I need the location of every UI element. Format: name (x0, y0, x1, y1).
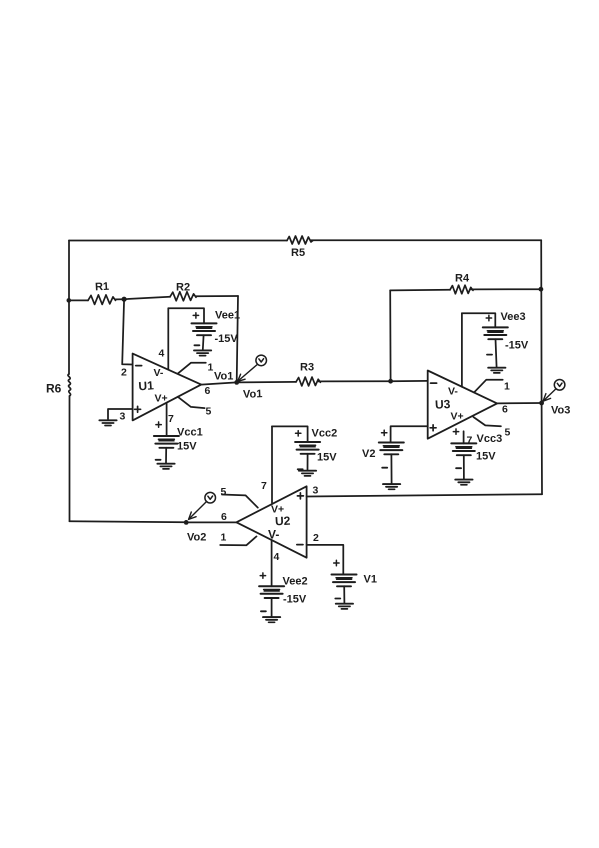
ground at Vee1 (194, 350, 211, 355)
U2 pin 1 lead (220, 536, 256, 545)
U2 pin 3 plus sign (297, 493, 303, 499)
battery Vcc1 (154, 436, 179, 448)
wire Vo1 node to R3 (237, 381, 296, 384)
svg-text:R2: R2 (176, 282, 190, 294)
svg-text:5: 5 (221, 486, 227, 498)
svg-text:R5: R5 (291, 247, 305, 259)
battery Vee3 (483, 327, 508, 339)
svg-text:15V: 15V (317, 452, 337, 464)
wire Vee1 stem (202, 335, 205, 350)
wire V2 stem (390, 454, 392, 483)
wire U1 pin 7 stem to Vcc1 (166, 403, 168, 436)
U2 pin 5 lead (222, 495, 258, 508)
wire R2 right lead to corner (196, 295, 238, 297)
svg-text:4: 4 (159, 348, 165, 360)
wire node into U3 pin minus (391, 380, 428, 382)
wire U3 pin 7 stem to Vcc3 (463, 431, 465, 443)
wire right rail vertical (540, 240, 543, 494)
resistor R6 (68, 374, 71, 396)
resistor R1 (88, 295, 116, 305)
label V1 minus (335, 598, 340, 600)
wire left vertical upper segment (68, 241, 70, 375)
wire node to R2 (124, 297, 170, 299)
node R1-R2 junction dot (122, 297, 127, 302)
wire U3 Vee3 stem up (461, 313, 463, 387)
wire U3 output to Vo3 node (497, 402, 541, 404)
svg-text:V-: V- (448, 386, 458, 398)
svg-text:2: 2 (121, 367, 127, 379)
svg-text:V-: V- (154, 367, 164, 379)
resistor R5 (287, 236, 313, 244)
battery Vee1 (192, 323, 217, 335)
wire R3 to U3 inverting node (318, 380, 391, 382)
op-amp U2 triangle (left pointing) (236, 486, 306, 557)
U3 pin plus sign (430, 425, 436, 431)
wire R1 left lead from left rail (69, 299, 88, 301)
battery Vcc2 (295, 442, 320, 454)
wire U2 pin 4 stem down to Vee2 (271, 540, 273, 586)
battery V2 (379, 443, 404, 455)
svg-text:1: 1 (221, 532, 227, 544)
svg-text:V+: V+ (155, 393, 168, 405)
wire Vcc2 stem (307, 454, 309, 471)
U3 pin minus sign (431, 382, 437, 384)
ground at Vee3 (488, 368, 505, 373)
svg-text:5: 5 (206, 406, 212, 418)
svg-text:U2: U2 (275, 514, 291, 529)
resistor R2 (170, 292, 196, 301)
svg-text:4: 4 (274, 551, 280, 563)
label V1 plus (334, 560, 339, 565)
label V2 plus (382, 430, 387, 435)
ground at Vcc1 (157, 464, 174, 469)
svg-text:V2: V2 (362, 448, 375, 460)
wire node down to U1 pin 2 (122, 299, 132, 364)
svg-text:Vcc2: Vcc2 (312, 428, 338, 440)
battery Vcc3 (451, 443, 476, 455)
svg-text:U3: U3 (435, 397, 451, 412)
resistor R4 (450, 285, 473, 294)
wire Vo2 node to U2 output apex (186, 521, 236, 523)
wire R4 right lead to right rail (471, 288, 541, 290)
probe voltmeter at Vo2 (189, 492, 216, 519)
wire Vcc3 stem (463, 455, 465, 479)
battery V1 (332, 575, 357, 587)
op-amp U3 triangle (428, 371, 497, 439)
label Vcc2 plus (296, 431, 301, 436)
svg-text:6: 6 (502, 404, 508, 416)
wire bottom net right rail to U2 pin 3 (307, 494, 542, 496)
label Vcc2 minus (298, 468, 303, 470)
wire node up to R4 (389, 290, 391, 381)
wire U2 pin 2 to V1 (307, 545, 344, 575)
U3 pin 1 lead (474, 380, 502, 392)
ground at V2 (383, 484, 400, 489)
node left rail R1 junction dot (67, 298, 72, 303)
wire Vee3 stem (496, 339, 497, 367)
svg-text:Vee1: Vee1 (215, 310, 240, 322)
label Vcc1 plus (156, 422, 161, 427)
label Vee3 plus (486, 315, 491, 320)
label Vcc3 plus (453, 429, 458, 434)
U2 pin 2 minus sign (297, 544, 303, 546)
probe voltmeter at Vo1 (238, 355, 267, 381)
svg-text:1: 1 (208, 362, 214, 374)
svg-text:7: 7 (261, 480, 267, 492)
wire Vee1 top link (168, 308, 204, 323)
wire left vertical lower segment (69, 396, 71, 521)
label Vee2 plus (260, 573, 265, 578)
ground at V1 (336, 604, 353, 609)
svg-text:7: 7 (168, 413, 174, 425)
svg-text:Vo2: Vo2 (187, 532, 206, 544)
svg-text:15V: 15V (177, 441, 197, 453)
svg-text:R1: R1 (95, 281, 110, 294)
svg-text:Vo1: Vo1 (243, 388, 263, 401)
label Vee2 minus (261, 610, 266, 612)
svg-text:6: 6 (205, 385, 211, 397)
svg-text:Vee3: Vee3 (501, 311, 526, 323)
ground at Vcc2 (299, 471, 316, 476)
wire Vee2 stem (271, 598, 273, 617)
svg-text:3: 3 (120, 411, 126, 423)
svg-text:15V: 15V (476, 451, 496, 463)
wire Vcc2 top link (272, 426, 308, 442)
wire U2 pin 7 stem up to Vcc2 (271, 426, 273, 503)
wire V2 link to U3 plus input (391, 426, 428, 442)
wire R2 corner down to Vo1 node (237, 296, 238, 382)
wire U1 pin 3 to ground (108, 409, 133, 419)
op-amp U1 triangle (133, 354, 202, 421)
svg-text:Vo3: Vo3 (551, 405, 570, 417)
node U3 inverting junction dot (388, 379, 393, 384)
svg-text:V+: V+ (271, 504, 284, 516)
wire Vee3 top link (462, 313, 495, 327)
svg-text:V-: V- (268, 528, 279, 542)
wire R1 right lead to node (116, 298, 125, 300)
svg-text:R4: R4 (455, 273, 470, 285)
svg-text:V1: V1 (364, 574, 377, 586)
svg-text:U1: U1 (138, 378, 155, 393)
wire U1 pin 4 stem up (167, 308, 169, 369)
resistor R3 (296, 377, 320, 386)
svg-text:R6: R6 (46, 382, 62, 396)
label Vee1 minus (194, 344, 199, 346)
svg-text:5: 5 (505, 427, 511, 439)
wire R4 left lead (390, 289, 450, 292)
svg-text:6: 6 (221, 511, 227, 523)
label Vee1 plus (193, 313, 198, 318)
wire bottom-left to Vo2 node (70, 521, 187, 522)
svg-text:Vcc1: Vcc1 (177, 427, 203, 439)
battery Vee2 (259, 586, 284, 598)
label V2 minus (382, 467, 387, 469)
U1 pin 3 plus sign (135, 406, 141, 412)
U1 pin 2 minus sign (136, 365, 142, 367)
node Vo1 junction dot (234, 380, 239, 385)
label Vcc1 minus (156, 459, 161, 461)
svg-text:-15V: -15V (505, 340, 529, 352)
label Vee3 minus (487, 354, 492, 356)
ground at Vee2 (263, 617, 280, 622)
svg-text:-15V: -15V (215, 333, 239, 345)
wire top net from top-left corner to R5 (69, 240, 287, 242)
U1 pin 1 lead (178, 363, 206, 374)
wire top net from R5 to top-right corner (311, 239, 541, 241)
svg-text:V+: V+ (451, 411, 464, 423)
svg-text:7: 7 (467, 435, 473, 447)
U3 pin 5 lead (473, 417, 501, 426)
svg-text:Vee2: Vee2 (283, 576, 308, 588)
ground at Vcc3 (455, 480, 472, 485)
svg-text:2: 2 (313, 532, 319, 544)
wire V1 stem (343, 586, 345, 603)
svg-text:3: 3 (313, 485, 319, 497)
svg-text:Vo1: Vo1 (214, 371, 233, 383)
label Vcc3 minus (456, 467, 461, 469)
svg-text:Vcc3: Vcc3 (477, 433, 503, 445)
svg-text:1: 1 (504, 381, 510, 393)
U1 pin 5 lead (178, 397, 205, 408)
wire U1 output to Vo1 node (201, 382, 237, 384)
svg-text:-15V: -15V (283, 594, 307, 606)
wire Vcc1 stem (165, 448, 167, 464)
node Vo2 junction dot (184, 520, 189, 525)
node Vo3 junction dot (539, 401, 544, 406)
ground at U1 pin 3 (99, 420, 116, 425)
node R4 right junction dot (539, 287, 544, 292)
probe voltmeter at Vo3 (543, 380, 565, 402)
svg-text:R3: R3 (300, 362, 314, 374)
